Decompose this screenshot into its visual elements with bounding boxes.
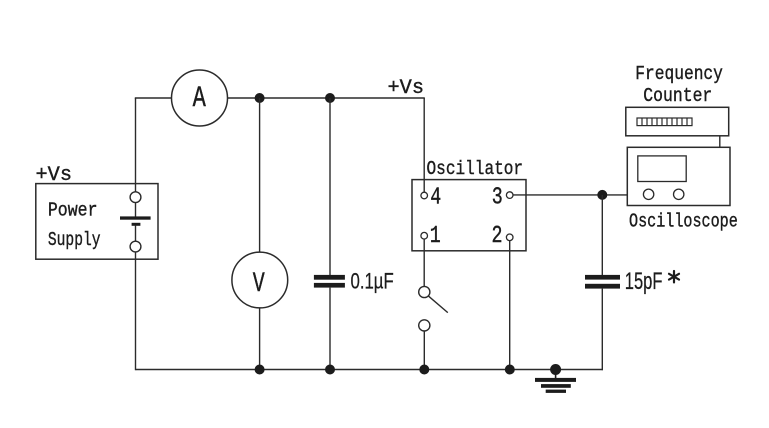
power supply box: [36, 184, 158, 260]
ground symbol bar 2: [541, 384, 571, 388]
battery: long plate: [120, 216, 151, 219]
svg-text:0.1µF: 0.1µF: [351, 269, 394, 294]
terminal: power supply + terminal circle: [130, 192, 141, 203]
oscilloscope screen: [638, 156, 686, 182]
svg-text:Counter: Counter: [643, 85, 712, 107]
wire: 0.1uF branch lower: [329, 288, 331, 370]
node: bus dot switch: [419, 365, 429, 375]
svg-text:+Vs: +Vs: [388, 77, 425, 100]
node: bus dot 0.1uF: [325, 365, 335, 375]
ground symbol bar 1: [535, 378, 576, 382]
wire: top rail from ammeter to +Vs corner: [228, 97, 425, 99]
svg-text:A: A: [193, 81, 206, 115]
svg-text:Oscilloscope: Oscilloscope: [629, 211, 738, 233]
oscilloscope knob right: [674, 189, 684, 199]
svg-text:V: V: [253, 269, 265, 300]
ground symbol bar 3: [546, 390, 566, 393]
svg-text:Supply: Supply: [48, 229, 101, 251]
capacitor C1 0.1uF bottom plate: [314, 283, 345, 288]
node: junction dot top rail / 0.1uF branch: [325, 93, 335, 103]
ammeter A: [172, 70, 228, 126]
wire: voltmeter branch upper: [259, 98, 261, 252]
svg-text:3: 3: [492, 184, 503, 211]
wire: left vertical from +Vs rail down to power supply top terminal: [135, 98, 137, 192]
voltmeter V: [232, 252, 288, 308]
oscilloscope knob left: [643, 189, 653, 199]
wire: top terminal to battery plate: [135, 202, 137, 216]
svg-text:2: 2: [492, 223, 503, 250]
svg-text:1: 1: [430, 223, 441, 250]
switch S1 blade: [429, 296, 448, 312]
wire: +Vs corner down to oscillator pin 4: [423, 98, 425, 192]
frequency counter box: [626, 107, 729, 136]
wire: ground bus: [136, 369, 603, 371]
switch S1 lower contact: [419, 320, 430, 331]
svg-text:Power: Power: [48, 200, 98, 222]
svg-text:Oscillator: Oscillator: [427, 158, 524, 180]
wire: voltmeter branch lower: [259, 308, 261, 370]
capacitor C2 15pF top plate: [585, 275, 620, 280]
capacitor C1 0.1uF top plate: [314, 275, 345, 280]
oscillator box U1: [412, 180, 526, 251]
wire: pin 3 to oscilloscope: [513, 194, 627, 196]
wire: pin 1 down to switch: [423, 239, 425, 286]
wire: counter to oscilloscope connector: [719, 136, 721, 148]
wire: top-left horizontal into ammeter: [135, 97, 172, 99]
capacitor C2 15pF bottom plate: [585, 284, 620, 289]
oscilloscope box: [627, 147, 730, 205]
svg-text:4: 4: [430, 185, 441, 212]
wire: 15pF branch lower: [601, 289, 603, 371]
node: bus dot ground: [550, 364, 561, 375]
svg-text:Frequency: Frequency: [635, 63, 723, 85]
wire: 0.1uF branch upper: [329, 98, 331, 275]
wire: 15pF branch upper: [601, 195, 603, 275]
pin 1 circle: [421, 232, 428, 239]
switch S1 upper contact: [419, 286, 430, 297]
value label asterisk: [669, 271, 679, 282]
pin 2 circle: [506, 234, 513, 241]
wire: battery plate to bottom terminal: [135, 226, 137, 242]
ground symbol stub: [555, 370, 557, 379]
battery: short plate: [132, 223, 141, 226]
node: bus dot pin 2: [505, 365, 515, 375]
wire: power supply bottom terminal to ground bus: [135, 252, 137, 370]
node: junction dot pin3 / 15pF branch: [597, 190, 607, 200]
pin 4 circle: [421, 192, 428, 199]
pin 3 circle: [506, 192, 513, 199]
svg-text:15pF: 15pF: [625, 268, 663, 295]
terminal: power supply - terminal circle: [130, 241, 141, 252]
node: bus dot voltmeter: [255, 365, 265, 375]
node: junction dot top rail / voltmeter branch: [255, 93, 265, 103]
frequency counter display segments: [637, 118, 692, 126]
wire: pin 2 down to ground bus: [509, 241, 511, 370]
wire: switch to ground bus: [423, 331, 425, 370]
